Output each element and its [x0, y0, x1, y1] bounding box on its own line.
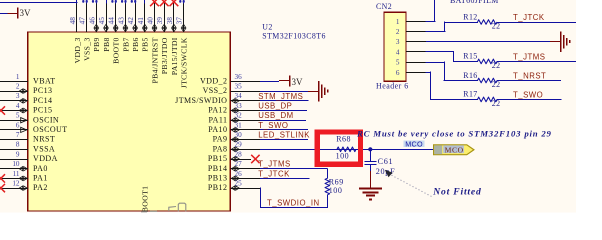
connector CN2 Header 6: [376, 2, 409, 91]
pin 36 VDD_2 (right): [200, 73, 260, 86]
svg-text:PB3/JTDO: PB3/JTDO: [160, 37, 169, 74]
svg-text:T_JTMS: T_JTMS: [513, 52, 545, 61]
net label fragments at top edge (cut off): [82, 0, 185, 3]
net label MCO (highlighted): [404, 139, 425, 148]
port MCO: [434, 145, 474, 155]
svg-text:PA11: PA11: [209, 115, 228, 124]
svg-text:T_SWDIO_IN: T_SWDIO_IN: [267, 199, 320, 208]
svg-text:PB13: PB13: [208, 174, 227, 183]
pin 32 PA11 (right): [209, 112, 260, 125]
wire / net label LED_STLINK: [258, 131, 310, 140]
svg-text:39: 39: [155, 17, 164, 25]
pin 38 PA15/JTDI (top): [165, 0, 179, 75]
svg-text:PB9: PB9: [92, 37, 101, 51]
pin 46 PB9 (top): [87, 0, 101, 52]
svg-text:37: 37: [175, 17, 184, 25]
svg-text:100: 100: [329, 186, 343, 195]
resistor R17 22: [463, 90, 500, 108]
svg-text:T_SWO: T_SWO: [513, 90, 543, 99]
svg-text:BAT60JFILM: BAT60JFILM: [450, 0, 499, 5]
pin 20 BOOT1 (bottom): [141, 186, 150, 213]
wire 3V rail to pin 48: [0, 2, 77, 4]
svg-text:R17: R17: [463, 90, 477, 99]
red highlight frame around R68: [317, 132, 360, 164]
svg-text:12: 12: [12, 180, 20, 188]
pin 27 PB14 (right): [208, 160, 260, 173]
svg-text:USB_DM: USB_DM: [258, 111, 294, 120]
svg-text:43: 43: [116, 17, 125, 25]
svg-text:PC15: PC15: [33, 106, 52, 115]
svg-text:VDDA: VDDA: [33, 154, 58, 163]
pin 41 PB5 (top): [136, 0, 150, 52]
svg-text:CN2: CN2: [376, 2, 392, 11]
pin 26 PB13 (right): [208, 170, 260, 183]
svg-text:3: 3: [396, 38, 400, 46]
svg-text:40: 40: [146, 17, 155, 25]
svg-text:T_SWO: T_SWO: [258, 121, 288, 130]
wire / net label T_JTMS: [497, 52, 576, 61]
svg-text:1: 1: [16, 73, 20, 81]
pin 37 JTCK/SWCLK (top): [175, 0, 189, 88]
svg-text:USB_DP: USB_DP: [258, 102, 292, 111]
svg-text:PA9: PA9: [213, 135, 228, 144]
pin 29 PA8 (right): [213, 141, 260, 154]
svg-text:LED_STLINK: LED_STLINK: [258, 131, 310, 140]
wire / net label STM_JTMS: [258, 92, 308, 101]
svg-text:2: 2: [16, 83, 20, 91]
svg-text:36: 36: [235, 73, 243, 81]
pin 42 PB6 (top): [126, 0, 140, 52]
wire CN2 pin3 to ground: [426, 41, 550, 43]
wire / net label T_SWO: [497, 90, 562, 99]
svg-text:PB7: PB7: [121, 37, 130, 51]
resistor R69 100 (vertical): [325, 169, 344, 208]
svg-text:6: 6: [396, 69, 400, 77]
svg-text:Not Fitted: Not Fitted: [432, 186, 481, 197]
svg-text:PA2: PA2: [33, 183, 48, 192]
svg-text:35: 35: [235, 83, 243, 91]
clipped grey glyph fragments at chip bottom: [141, 203, 186, 212]
wire CN2 to R12: [426, 31, 446, 33]
pin 4 of CN2: [396, 48, 426, 56]
pin 30 PA9 (right): [213, 131, 260, 144]
svg-text:VSS_2: VSS_2: [203, 86, 228, 95]
pin 34 JTMS/SWDIO (right): [175, 92, 260, 105]
svg-text:RC Must be very close to STM32: RC Must be very close to STM32F103 pin 2…: [356, 129, 552, 139]
svg-text:STM32F103C8T6: STM32F103C8T6: [262, 32, 326, 41]
svg-text:T_JTCK: T_JTCK: [513, 13, 545, 22]
pin 5 OSCIN (left): [0, 112, 59, 125]
junction dot MCO/C61: [368, 147, 372, 151]
resistor R15 22: [463, 52, 500, 70]
svg-text:VSS_3: VSS_3: [83, 37, 92, 61]
svg-text:OSCIN: OSCIN: [33, 115, 59, 124]
svg-text:PB4/JNTRST: PB4/JNTRST: [150, 37, 159, 83]
svg-text:41: 41: [136, 17, 145, 25]
pin 44 BOOT0 (top): [107, 0, 121, 64]
annotation: Not Fitted with leader arrow: [385, 170, 482, 198]
resistor R16 22: [463, 71, 500, 89]
power port 3V at pin 36 VDD_2: [260, 75, 303, 87]
pin 47 VSS_3 (top): [78, 0, 92, 61]
svg-text:22: 22: [492, 80, 501, 89]
svg-text:VDD_3: VDD_3: [73, 37, 82, 63]
wire MCO from pin 29 PA8: [260, 149, 434, 151]
svg-text:3V: 3V: [20, 8, 32, 18]
svg-text:5: 5: [16, 112, 20, 120]
svg-text:22: 22: [492, 61, 501, 70]
svg-text:MCO: MCO: [405, 139, 423, 148]
pin 2 of CN2: [396, 28, 426, 36]
svg-text:3: 3: [16, 92, 20, 100]
svg-text:PC14: PC14: [33, 96, 52, 105]
svg-text:OSCOUT: OSCOUT: [33, 125, 68, 134]
no-connect X at pin 28 PB15: [251, 155, 259, 163]
svg-text:8: 8: [16, 141, 20, 149]
svg-text:20pF: 20pF: [376, 167, 396, 176]
svg-text:22: 22: [492, 99, 501, 108]
ground at pin 35 VSS_2: [260, 81, 328, 102]
pin 48 VDD_3 (top): [68, 0, 82, 63]
svg-text:3V: 3V: [292, 77, 304, 87]
wire / net label T_JTMS: [258, 160, 327, 169]
pin 9 VDDA (left): [0, 150, 58, 163]
svg-text:6: 6: [16, 121, 20, 129]
wire / net label USB_DM: [258, 111, 306, 120]
svg-text:VSSA: VSSA: [33, 144, 55, 153]
svg-text:C61: C61: [378, 157, 394, 166]
pin 11 PA1 (left): [0, 170, 48, 183]
pin 2 PC13 (left): [0, 83, 52, 96]
pin 33 PA12 (right): [208, 102, 260, 115]
svg-text:4: 4: [396, 48, 400, 56]
svg-text:100: 100: [336, 151, 350, 160]
pin 3 PC14 (left): [0, 92, 52, 105]
pin 6 OSCOUT (left): [0, 121, 68, 134]
svg-text:R16: R16: [463, 71, 477, 80]
svg-text:T_JTMS: T_JTMS: [258, 160, 290, 169]
wire / net label USB_DP: [258, 102, 307, 111]
svg-text:10: 10: [12, 160, 20, 168]
pin 28 PB15 (right): [208, 150, 251, 163]
svg-text:STM_JTMS: STM_JTMS: [258, 92, 303, 101]
svg-text:11: 11: [13, 170, 20, 178]
svg-text:Header 6: Header 6: [376, 82, 409, 91]
svg-text:9: 9: [16, 150, 20, 158]
svg-text:PA12: PA12: [208, 106, 227, 115]
wire CN2 to R17: [426, 72, 432, 74]
svg-text:38: 38: [165, 17, 174, 25]
svg-text:NRST: NRST: [33, 135, 55, 144]
svg-text:47: 47: [78, 17, 87, 25]
pin 8 VSSA (left): [0, 141, 55, 154]
wire / net label T_SWO: [258, 121, 308, 130]
svg-text:PB8: PB8: [102, 37, 111, 51]
pin 4 PC15 (left): [0, 102, 52, 115]
mcu U2 STM32F103C8T6 body: [28, 32, 231, 211]
svg-text:42: 42: [126, 17, 135, 25]
svg-text:2: 2: [396, 28, 400, 36]
svg-text:4: 4: [16, 102, 20, 110]
svg-text:PB12: PB12: [208, 183, 227, 192]
resistor R12 22: [463, 12, 500, 30]
pin 1 VBAT (left): [0, 73, 56, 86]
pin 43 PB7 (top): [116, 0, 130, 52]
svg-text:7: 7: [16, 131, 20, 139]
svg-text:PA1: PA1: [33, 174, 48, 183]
wire CN2 pin1 up to diode (cut off): [426, 21, 436, 23]
svg-text:PB15: PB15: [208, 154, 227, 163]
pin 6 of CN2: [396, 69, 426, 77]
pin 35 VSS_2 (right): [203, 83, 260, 96]
svg-text:44: 44: [107, 17, 116, 25]
svg-text:VDD_2: VDD_2: [200, 77, 227, 86]
capacitor C61 20pF: [364, 149, 395, 176]
pin 1 of CN2: [396, 18, 426, 26]
svg-text:PA0: PA0: [33, 164, 48, 173]
svg-text:PC13: PC13: [33, 86, 52, 95]
pin 3 of CN2: [396, 38, 426, 46]
resistor R68 100: [336, 135, 356, 161]
power port 3V top-left: [0, 8, 31, 19]
svg-text:1: 1: [396, 18, 400, 26]
wire CN2 to R16: [426, 62, 445, 64]
svg-text:PB5: PB5: [141, 37, 150, 51]
pin 45 PB8 (top): [97, 0, 111, 52]
pin 31 PA10 (right): [208, 121, 260, 134]
svg-text:MCO: MCO: [445, 146, 464, 155]
wire / net label T_NRST: [497, 71, 561, 80]
pin 39 PB3/JTDO (top): [155, 0, 169, 74]
svg-text:45: 45: [97, 17, 106, 25]
wire / net label T_JTCK: [258, 169, 309, 178]
svg-text:T_JTCK: T_JTCK: [258, 169, 290, 178]
svg-text:R12: R12: [463, 12, 477, 21]
ground on CN2 pin3 net: [550, 41, 560, 43]
svg-text:PA15/JTDI: PA15/JTDI: [170, 37, 179, 75]
wire CN2 to R15: [426, 51, 454, 53]
svg-text:U2: U2: [262, 22, 272, 31]
svg-text:48: 48: [68, 17, 77, 25]
svg-text:R68: R68: [336, 135, 351, 144]
wire / net label T_JTCK: [497, 13, 576, 23]
wire / net label T_SWDIO_IN from pin 25 PB12: [260, 188, 328, 208]
svg-text:BOOT1: BOOT1: [141, 186, 150, 213]
svg-text:JTMS/SWDIO: JTMS/SWDIO: [175, 96, 227, 105]
svg-text:PA10: PA10: [208, 125, 227, 134]
svg-text:BOOT0: BOOT0: [112, 37, 121, 64]
pin 5 of CN2: [396, 59, 426, 67]
ground below C61: [359, 171, 382, 200]
pin 12 PA2 (left): [0, 180, 48, 193]
svg-text:PA8: PA8: [213, 144, 228, 153]
svg-text:R15: R15: [463, 52, 477, 61]
pin 25 PB12 (right): [208, 180, 260, 193]
pin 40 PB4/JNTRST (top): [146, 0, 160, 84]
svg-text:T_NRST: T_NRST: [513, 71, 546, 80]
pin 10 PA0 (left): [0, 160, 48, 173]
svg-text:5: 5: [396, 59, 400, 67]
svg-text:PB14: PB14: [208, 164, 227, 173]
svg-text:JTCK/SWCLK: JTCK/SWCLK: [180, 37, 189, 88]
svg-text:46: 46: [87, 17, 96, 25]
svg-text:VBAT: VBAT: [33, 77, 56, 86]
pin 7 NRST (left): [0, 131, 55, 144]
svg-text:PB6: PB6: [131, 37, 140, 51]
